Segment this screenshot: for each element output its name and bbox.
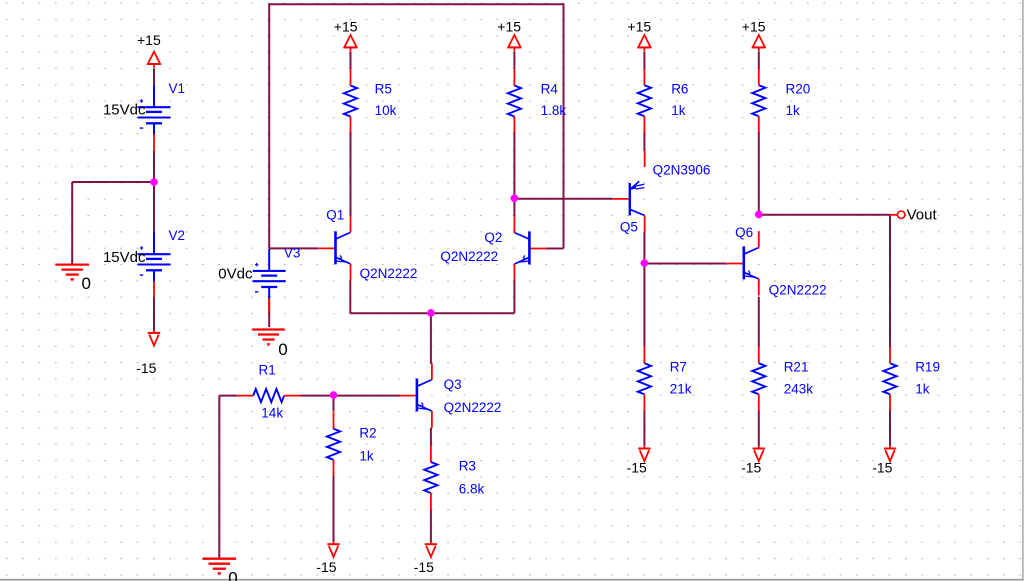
svg-text:V2: V2 [169,228,186,243]
svg-text:1.8k: 1.8k [541,103,567,118]
svg-text:R1: R1 [259,362,276,377]
svg-text:V3: V3 [284,246,301,261]
svg-text:Q6: Q6 [735,225,753,240]
svg-text:15Vdc: 15Vdc [103,102,146,119]
svg-text:Q2N2222: Q2N2222 [444,400,502,415]
svg-text:+15: +15 [627,18,651,34]
svg-text:R5: R5 [375,81,392,96]
svg-text:Q2N2222: Q2N2222 [440,249,498,264]
svg-text:0: 0 [278,340,287,359]
svg-text:+15: +15 [497,18,521,34]
svg-text:-15: -15 [136,360,156,376]
svg-text:R3: R3 [459,459,476,474]
svg-text:-15: -15 [316,559,336,575]
svg-text:+15: +15 [137,32,161,48]
svg-text:Q1: Q1 [326,208,344,223]
svg-text:R7: R7 [670,360,687,375]
svg-text:1k: 1k [359,449,374,464]
svg-text:Q5: Q5 [620,220,638,235]
svg-text:1k: 1k [671,103,686,118]
svg-text:-15: -15 [741,460,761,476]
svg-text:-15: -15 [627,460,647,476]
svg-text:Q2N3906: Q2N3906 [653,163,711,178]
svg-text:-15: -15 [414,559,434,575]
svg-text:R2: R2 [359,425,376,440]
svg-text:0: 0 [82,274,91,293]
svg-text:R21: R21 [784,360,809,375]
svg-text:Vout: Vout [907,207,938,224]
svg-text:+15: +15 [742,18,766,34]
svg-text:-15: -15 [872,460,892,476]
svg-text:6.8k: 6.8k [459,482,485,497]
svg-text:0: 0 [228,569,237,581]
svg-text:10k: 10k [375,103,397,118]
svg-text:Q2N2222: Q2N2222 [769,283,827,298]
svg-text:R6: R6 [671,81,688,96]
svg-text:+15: +15 [334,18,358,34]
svg-text:0Vdc: 0Vdc [218,265,253,282]
svg-text:Q2: Q2 [484,230,502,245]
svg-text:15Vdc: 15Vdc [103,249,146,266]
svg-text:V1: V1 [169,81,186,96]
svg-text:R4: R4 [541,81,559,96]
svg-text:R20: R20 [786,81,811,96]
svg-text:R19: R19 [915,360,940,375]
svg-text:1k: 1k [786,103,801,118]
svg-text:1k: 1k [915,382,930,397]
svg-text:21k: 21k [670,382,692,397]
svg-text:243k: 243k [784,382,814,397]
svg-text:14k: 14k [261,405,283,420]
svg-text:Q3: Q3 [444,377,462,392]
svg-text:Q2N2222: Q2N2222 [360,266,418,281]
